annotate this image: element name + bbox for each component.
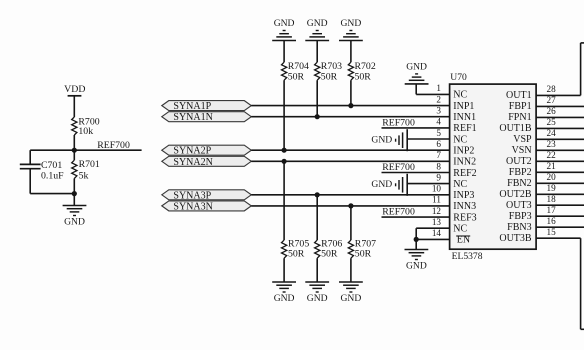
wire pin14 to ground — [415, 239, 417, 249]
pin number 9 — [436, 172, 441, 182]
wire pin 16 to edge — [536, 226, 584, 228]
svg-text:GND: GND — [341, 18, 362, 29]
value label C701 0.1uF — [41, 160, 64, 182]
pin name OUT3 pin 18 — [506, 200, 532, 211]
resistor R704 — [282, 62, 287, 80]
svg-text:SYNA1N: SYNA1N — [173, 112, 212, 123]
wire pin 20 to edge — [536, 182, 584, 184]
wire VDD to R700 — [73, 96, 75, 117]
svg-text:6: 6 — [436, 139, 441, 149]
pin number 27 — [547, 95, 557, 105]
pin name VSP pin 24 — [513, 134, 532, 145]
value label R704 50R — [288, 61, 309, 82]
ground below R701 — [63, 206, 87, 228]
svg-text:13: 13 — [432, 217, 442, 227]
svg-text:OUT1B: OUT1B — [499, 123, 532, 134]
wire REF700 to C701 — [29, 150, 31, 164]
net connector SYNA3N — [162, 201, 252, 213]
wire REF700 to pin 12 — [382, 216, 450, 218]
wire SYNA1N to IC — [251, 116, 449, 118]
svg-text:GND: GND — [406, 261, 427, 272]
wire pin 24 to edge — [536, 138, 584, 140]
wire pin 25 to edge — [536, 127, 584, 129]
junction R702/SYNA1P — [348, 103, 353, 108]
wire pin28 to top right — [536, 43, 584, 96]
pin name INN1 pin 3 — [453, 112, 476, 123]
svg-text:10: 10 — [432, 184, 442, 194]
svg-text:REF3: REF3 — [453, 212, 476, 223]
pin number 3 — [436, 106, 441, 116]
svg-text:24: 24 — [547, 128, 557, 138]
svg-text:INN2: INN2 — [453, 157, 476, 168]
pin number 26 — [547, 106, 557, 116]
value label EL5378 — [452, 251, 483, 262]
bottom node junction — [72, 191, 77, 196]
svg-text:VDD: VDD — [64, 84, 85, 95]
ground below R706 — [305, 282, 329, 304]
svg-text:SYNA3P: SYNA3P — [173, 190, 211, 201]
pin name NC pin 9 — [453, 179, 467, 190]
wire REF700 to pin 8 — [382, 172, 450, 174]
net label REF700 pin 12 — [382, 207, 415, 218]
svg-text:SYNA3N: SYNA3N — [173, 201, 212, 212]
svg-text:VSP: VSP — [513, 134, 532, 145]
svg-text:SYNA2N: SYNA2N — [173, 157, 212, 168]
wire ground to R702 — [350, 41, 352, 63]
pin name FBP1 pin 27 — [509, 101, 532, 112]
wire pin13 stub — [416, 228, 449, 239]
wire SYNA2N to IC — [251, 160, 449, 162]
value label R707 50R — [355, 239, 376, 260]
svg-text:INN3: INN3 — [453, 201, 476, 212]
ground below R707 — [339, 282, 363, 304]
svg-text:5k: 5k — [79, 171, 89, 182]
svg-text:OUT3: OUT3 — [506, 200, 532, 211]
pin name INP3 pin 10 — [453, 190, 474, 201]
wire R702 to SYNA1P — [350, 80, 352, 105]
wire pin 19 to edge — [536, 193, 584, 195]
svg-text:EL5378: EL5378 — [452, 251, 483, 262]
wire REF700 to pin 4 — [382, 127, 450, 129]
pin name FBN3 pin 16 — [507, 222, 531, 233]
pin number 4 — [436, 117, 441, 127]
pin name FBP3 pin 17 — [509, 211, 532, 222]
svg-text:REF700: REF700 — [97, 140, 130, 151]
resistor R706 — [315, 240, 320, 258]
value label R701 5k — [79, 159, 100, 181]
net connector SYNA1N — [162, 112, 252, 124]
node REF700 junction — [72, 148, 77, 153]
pin number 24 — [547, 128, 557, 138]
value label R703 50R — [321, 61, 342, 82]
svg-text:OUT3B: OUT3B — [499, 233, 532, 244]
capacitor C701 — [20, 164, 41, 168]
svg-text:GND: GND — [406, 61, 427, 72]
ground above pin1 — [405, 61, 429, 84]
pin name OUT3B pin 15 — [499, 233, 532, 244]
svg-text:NC: NC — [453, 134, 467, 145]
svg-text:26: 26 — [547, 106, 557, 116]
svg-text:16: 16 — [547, 216, 557, 226]
net connector SYNA2P — [162, 145, 252, 157]
resistor R703 — [315, 62, 320, 80]
svg-text:SYNA1P: SYNA1P — [173, 101, 211, 112]
wire R700 to node REF700 — [73, 135, 75, 150]
pin name INN3 pin 11 — [453, 201, 476, 212]
pin number 8 — [436, 161, 441, 171]
wire R707 to ground — [350, 258, 352, 282]
wire pin 26 to edge — [536, 116, 584, 118]
pin name NC pin 5 — [453, 134, 467, 145]
pin number 15 — [547, 227, 557, 237]
wire pin 17 to edge — [536, 215, 584, 217]
svg-text:28: 28 — [547, 84, 557, 94]
svg-text:8: 8 — [436, 161, 441, 171]
net connector SYNA3P — [162, 190, 252, 202]
resistor R702 — [348, 62, 353, 80]
wire SYNA3P to IC — [251, 194, 449, 196]
svg-text:50R: 50R — [355, 71, 372, 82]
svg-text:GND: GND — [341, 293, 362, 304]
pin name FBP2 pin 21 — [509, 167, 532, 178]
svg-text:18: 18 — [547, 194, 557, 204]
wire SYNA2P to IC — [251, 149, 449, 151]
svg-text:INP2: INP2 — [453, 146, 474, 157]
svg-text:15: 15 — [547, 227, 557, 237]
junction R703/SYNA1N — [315, 114, 320, 119]
svg-text:5: 5 — [436, 128, 441, 138]
pin number 13 — [432, 217, 442, 227]
pin name OUT2 pin 22 — [506, 156, 532, 167]
pin name OUT1B pin 25 — [499, 123, 532, 134]
svg-text:50R: 50R — [355, 248, 372, 259]
svg-text:GND: GND — [274, 18, 295, 29]
svg-text:14: 14 — [432, 228, 442, 238]
svg-text:REF1: REF1 — [453, 123, 476, 134]
wire C701 to bottom node — [30, 169, 74, 194]
svg-text:0.1uF: 0.1uF — [41, 171, 64, 182]
svg-text:20: 20 — [547, 172, 557, 182]
value label R702 50R — [355, 61, 376, 82]
svg-text:REF700: REF700 — [382, 207, 415, 218]
pin name INN2 pin 7 — [453, 157, 476, 168]
ground above R702 — [339, 18, 363, 41]
svg-text:OUT2B: OUT2B — [499, 189, 532, 200]
svg-text:FBP1: FBP1 — [509, 101, 532, 112]
svg-text:2: 2 — [436, 94, 441, 104]
svg-text:FBN3: FBN3 — [507, 222, 531, 233]
junction R704/SYNA2P — [282, 148, 287, 153]
wire pin5 stub — [407, 138, 449, 140]
junction R706/SYNA3P — [315, 192, 320, 197]
svg-text:VSN: VSN — [512, 145, 532, 156]
pin name FBN2 pin 20 — [507, 178, 531, 189]
svg-text:GND: GND — [307, 293, 328, 304]
svg-text:REF700: REF700 — [382, 117, 415, 128]
net label REF700 pin 8 — [382, 162, 415, 173]
svg-text:9: 9 — [436, 172, 441, 182]
pin number 20 — [547, 172, 557, 182]
pin number 14 — [432, 228, 442, 238]
value label R700 10k — [78, 116, 99, 137]
svg-text:GND: GND — [371, 134, 392, 145]
pin number 7 — [436, 150, 441, 160]
svg-text:50R: 50R — [321, 71, 338, 82]
junction R705/SYNA2N — [282, 159, 287, 164]
ground below R705 — [272, 282, 296, 304]
svg-text:FPN1: FPN1 — [508, 112, 531, 123]
wire pin 23 to edge — [536, 149, 584, 151]
svg-text:FBP3: FBP3 — [509, 211, 532, 222]
pin number 25 — [547, 117, 557, 127]
wire pin1 stub — [416, 84, 449, 95]
pin name NC pin 1 — [453, 90, 467, 101]
pin number 11 — [432, 195, 441, 205]
svg-text:FBP2: FBP2 — [509, 167, 532, 178]
wire R704 to SYNA2P — [283, 80, 285, 150]
svg-text:50R: 50R — [288, 248, 305, 259]
pin name EN pin 14 — [456, 235, 470, 246]
value label R706 50R — [321, 239, 342, 260]
svg-text:23: 23 — [547, 139, 557, 149]
ground at pin9 — [371, 174, 407, 196]
svg-text:4: 4 — [436, 117, 441, 127]
svg-text:10k: 10k — [78, 126, 93, 137]
pin number 5 — [436, 128, 441, 138]
resistor R700 — [72, 117, 77, 135]
svg-text:17: 17 — [547, 205, 557, 215]
pin name FPN1 pin 26 — [508, 112, 531, 123]
wire pin15 to bottom right — [536, 238, 584, 329]
pin number 17 — [547, 205, 557, 215]
svg-text:27: 27 — [547, 95, 557, 105]
ground below pin14 — [405, 250, 429, 272]
pin name INP2 pin 6 — [453, 146, 474, 157]
pin number 28 — [547, 84, 557, 94]
pin number 10 — [432, 184, 442, 194]
pin name REF3 pin 12 — [453, 212, 476, 223]
ground above R704 — [272, 18, 296, 41]
pin name VSN pin 23 — [512, 145, 532, 156]
svg-text:NC: NC — [453, 90, 467, 101]
svg-text:21: 21 — [547, 161, 557, 171]
svg-text:50R: 50R — [321, 248, 338, 259]
pin number 21 — [547, 161, 557, 171]
svg-text:REF2: REF2 — [453, 168, 476, 179]
wire pin14 stub — [416, 238, 449, 240]
pin number 12 — [432, 206, 442, 216]
wire pin 27 to edge — [536, 105, 584, 107]
wire node to ground — [73, 194, 75, 206]
value label R705 50R — [288, 239, 309, 260]
wire R703 to SYNA1N — [316, 80, 318, 117]
wire ground to R703 — [316, 41, 318, 63]
svg-text:3: 3 — [436, 106, 441, 116]
pin name REF2 pin 8 — [453, 168, 476, 179]
wire R705 to ground — [283, 258, 285, 282]
svg-text:U70: U70 — [450, 72, 467, 83]
svg-text:INP3: INP3 — [453, 190, 474, 201]
wire SYNA3P to R706 — [316, 195, 318, 240]
pin number 1 — [436, 83, 441, 93]
resistor R701 — [72, 150, 77, 193]
junction R707/SYNA3N — [348, 203, 353, 208]
wire SYNA2N to R705 — [283, 161, 285, 240]
svg-text:OUT1: OUT1 — [506, 90, 532, 101]
refdes U70 — [450, 72, 467, 83]
op-amp U70 body — [450, 84, 536, 249]
wire pin 22 to edge — [536, 160, 584, 162]
net connector SYNA1P — [162, 101, 252, 113]
pin number 19 — [547, 183, 557, 193]
pin number 16 — [547, 216, 557, 226]
pin number 23 — [547, 139, 557, 149]
net label REF700 — [97, 140, 130, 151]
svg-text:R701: R701 — [79, 159, 100, 170]
svg-text:NC: NC — [453, 179, 467, 190]
svg-text:GND: GND — [64, 217, 85, 228]
svg-text:22: 22 — [547, 150, 557, 160]
wire node REF700 horizontal — [30, 149, 141, 151]
wire ground to R704 — [283, 41, 285, 63]
wire SYNA1P to IC — [251, 105, 449, 107]
svg-text:FBN2: FBN2 — [507, 178, 531, 189]
pin number 18 — [547, 194, 557, 204]
svg-text:OUT2: OUT2 — [506, 156, 532, 167]
net connector SYNA2N — [162, 156, 252, 168]
pin name OUT1 pin 28 — [506, 90, 532, 101]
svg-text:SYNA2P: SYNA2P — [173, 146, 211, 157]
svg-text:19: 19 — [547, 183, 557, 193]
ground at pin5 — [371, 129, 407, 151]
ground above R703 — [305, 18, 329, 41]
svg-text:1: 1 — [436, 83, 441, 93]
pin name NC pin 13 — [453, 224, 467, 235]
pin number 2 — [436, 94, 441, 104]
svg-text:7: 7 — [436, 150, 441, 160]
svg-text:GND: GND — [371, 179, 392, 190]
pin number 6 — [436, 139, 441, 149]
wire SYNA3N to IC — [251, 205, 449, 207]
wire SYNA3N to R707 — [350, 206, 352, 240]
wire R706 to ground — [316, 258, 318, 282]
svg-text:12: 12 — [432, 206, 442, 216]
svg-text:25: 25 — [547, 117, 557, 127]
svg-text:11: 11 — [432, 195, 441, 205]
wire pin 18 to edge — [536, 204, 584, 206]
svg-text:INP1: INP1 — [453, 101, 474, 112]
svg-text:REF700: REF700 — [382, 162, 415, 173]
resistor R705 — [282, 240, 287, 258]
svg-text:GND: GND — [307, 18, 328, 29]
net label REF700 pin 4 — [382, 117, 415, 128]
svg-text:GND: GND — [274, 293, 295, 304]
resistor R707 — [348, 240, 353, 258]
svg-text:INN1: INN1 — [453, 112, 476, 123]
svg-text:NC: NC — [453, 224, 467, 235]
junction pin14/ground — [414, 237, 419, 242]
svg-text:50R: 50R — [288, 71, 305, 82]
pin name OUT2B pin 19 — [499, 189, 532, 200]
power symbol VDD — [64, 84, 85, 96]
wire pin 21 to edge — [536, 171, 584, 173]
wire pin9 stub — [407, 183, 449, 185]
pin number 22 — [547, 150, 557, 160]
pin name REF1 pin 4 — [453, 123, 476, 134]
svg-text:C701: C701 — [41, 160, 62, 171]
pin name INP1 pin 2 — [453, 101, 474, 112]
